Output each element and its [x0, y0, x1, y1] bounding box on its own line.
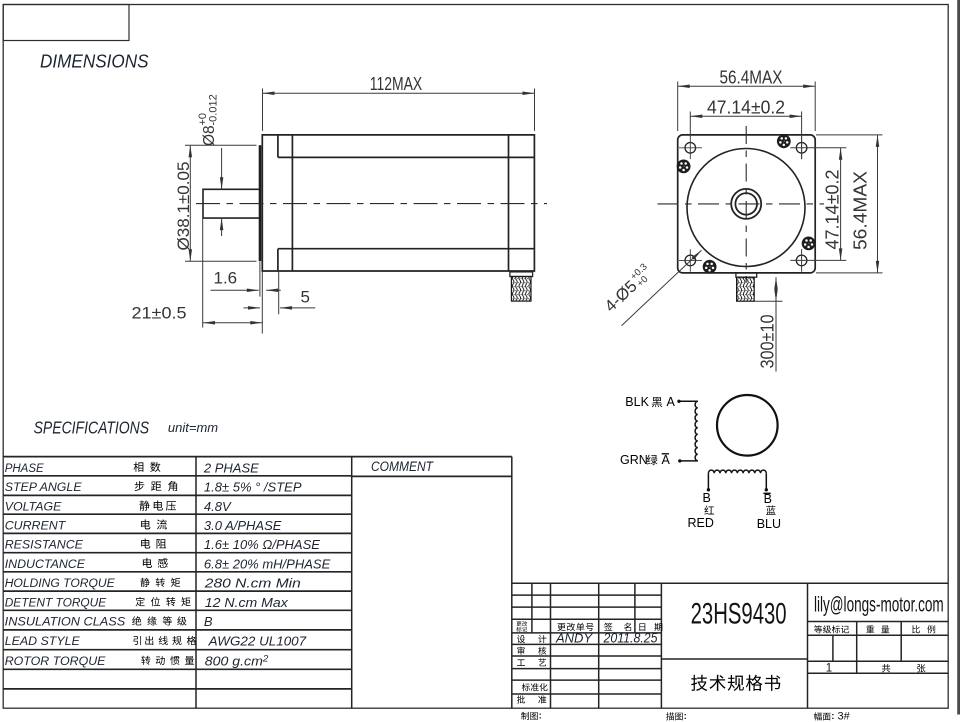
svg-text:A: A	[667, 395, 676, 409]
side wire collar	[510, 272, 533, 277]
svg-text:21±0.5: 21±0.5	[132, 304, 187, 323]
svg-text:A: A	[662, 453, 671, 467]
svg-text:4.8V: 4.8V	[204, 499, 232, 514]
svg-text:RED: RED	[688, 516, 714, 530]
dim 56.4MAX right	[816, 135, 883, 273]
dim 56.4MAX top	[678, 82, 816, 132]
leader 4-o5	[622, 250, 702, 325]
svg-text:B: B	[703, 491, 711, 505]
dim o38.1 extensions	[185, 145, 257, 261]
bottom labels	[521, 712, 529, 720]
svg-text:CURRENT: CURRENT	[5, 518, 67, 532]
phase A leads	[679, 401, 698, 461]
front centerlines	[658, 203, 825, 205]
svg-text::: :	[684, 711, 687, 722]
svg-text:LEAD STYLE: LEAD STYLE	[5, 634, 81, 648]
svg-text:3#: 3#	[838, 711, 851, 722]
svg-text:BLU: BLU	[757, 517, 781, 531]
svg-text:112MAX: 112MAX	[370, 73, 423, 94]
svg-text:3.0 A/PHASE: 3.0 A/PHASE	[204, 518, 282, 533]
svg-text:B: B	[204, 614, 213, 629]
svg-text:5: 5	[301, 288, 310, 307]
centerline side view	[196, 203, 547, 205]
svg-text:INSULATION CLASS: INSULATION CLASS	[5, 615, 126, 629]
headers 等级标记 重量 比例	[814, 625, 822, 633]
dim 1.6	[211, 262, 281, 334]
svg-text:INDUCTANCE: INDUCTANCE	[5, 557, 86, 571]
shaft	[203, 189, 259, 218]
svg-text:lily@longs-motor.com: lily@longs-motor.com	[814, 593, 944, 616]
svg-text:6.8± 20% mH/PHASE: 6.8± 20% mH/PHASE	[204, 556, 331, 571]
winding phase A coil	[695, 401, 698, 461]
dim 112MAX	[263, 89, 535, 131]
svg-text:BLK: BLK	[625, 395, 649, 409]
svg-text:2 PHASE: 2 PHASE	[203, 460, 259, 475]
svg-text:280 N.cm Min: 280 N.cm Min	[204, 576, 301, 591]
svg-text:B: B	[764, 492, 772, 506]
svg-text:800 g.cm2: 800 g.cm2	[205, 653, 268, 668]
svg-text:STEP ANGLE: STEP ANGLE	[5, 480, 83, 494]
row 工艺	[517, 659, 525, 665]
svg-text:300±10: 300±10	[758, 315, 778, 369]
svg-text:1.6: 1.6	[214, 269, 238, 288]
front face square	[678, 135, 816, 273]
hub boss circle	[731, 189, 761, 219]
spec table grid	[3, 457, 512, 689]
row 审核	[517, 647, 524, 655]
doc title 技术规格书	[691, 675, 707, 691]
4x corner screws	[677, 160, 691, 174]
top-left revision box	[3, 5, 129, 41]
dim 21	[203, 219, 263, 328]
svg-text:Ø38.1±0.05: Ø38.1±0.05	[174, 162, 193, 251]
4x mounting holes	[685, 143, 807, 266]
row 设计	[517, 635, 525, 643]
svg-text:-0.012: -0.012	[208, 94, 220, 125]
svg-text:ROTOR TORQUE: ROTOR TORQUE	[5, 654, 106, 668]
svg-text::: :	[831, 711, 834, 722]
front wire bundle	[737, 277, 755, 301]
svg-text:PHASE: PHASE	[5, 461, 45, 475]
scan edge strip	[957, 0, 960, 715]
svg-text:56.4MAX: 56.4MAX	[850, 171, 871, 250]
pilot boss 1.6mm plate	[259, 145, 262, 261]
svg-text:47.14±0.2: 47.14±0.2	[822, 170, 843, 250]
svg-text:23HS9430: 23HS9430	[691, 598, 787, 631]
side wire bundle	[511, 277, 531, 302]
front wire collar	[736, 273, 757, 277]
stator circle	[687, 149, 805, 267]
svg-text:COMMENT: COMMENT	[371, 459, 435, 474]
header 更改标记 tiny	[516, 621, 521, 626]
dim o8 leader	[221, 148, 223, 236]
svg-text:1: 1	[826, 663, 832, 675]
header 更改单号	[557, 623, 565, 631]
title block grid	[512, 583, 948, 708]
svg-text:RESISTANCE: RESISTANCE	[5, 538, 84, 552]
header 日期	[639, 623, 645, 631]
row 批准	[517, 695, 525, 703]
svg-text:12 N.cm Max: 12 N.cm Max	[205, 595, 289, 610]
svg-text:DIMENSIONS: DIMENSIONS	[40, 51, 149, 72]
dim 47.14 right	[790, 148, 846, 261]
svg-text:SPECIFICATIONS: SPECIFICATIONS	[34, 417, 150, 437]
phase B leads	[708, 473, 766, 490]
header 签名	[604, 623, 612, 631]
shaft circle	[735, 193, 757, 215]
svg-text:47.14±0.2: 47.14±0.2	[707, 96, 785, 117]
dim 300	[754, 277, 783, 371]
winding phase B coil	[708, 470, 766, 473]
svg-text::: :	[539, 711, 542, 722]
svg-text:HOLDING TORQUE: HOLDING TORQUE	[5, 576, 116, 590]
dim 5	[244, 272, 316, 315]
svg-text:ANDY: ANDY	[555, 631, 593, 646]
svg-text:1.6± 10% Ω/PHASE: 1.6± 10% Ω/PHASE	[204, 537, 320, 552]
motor body side view	[262, 135, 534, 271]
dim 47.14 top	[690, 112, 801, 160]
svg-text:unit=mm: unit=mm	[168, 420, 218, 435]
rotor circle	[717, 395, 778, 456]
svg-text:VOLTAGE: VOLTAGE	[5, 500, 62, 514]
svg-text:GRN: GRN	[620, 453, 648, 467]
svg-text:AWG22 UL1007: AWG22 UL1007	[208, 634, 307, 649]
svg-text:2011.8.25: 2011.8.25	[603, 631, 658, 646]
svg-text:DETENT TORQUE: DETENT TORQUE	[5, 595, 107, 609]
row 标准化	[522, 683, 530, 691]
svg-text:Ø8: Ø8	[201, 125, 218, 146]
svg-text:1.8± 5% ° /STEP: 1.8± 5% ° /STEP	[204, 480, 302, 495]
svg-text:56.4MAX: 56.4MAX	[720, 66, 783, 87]
